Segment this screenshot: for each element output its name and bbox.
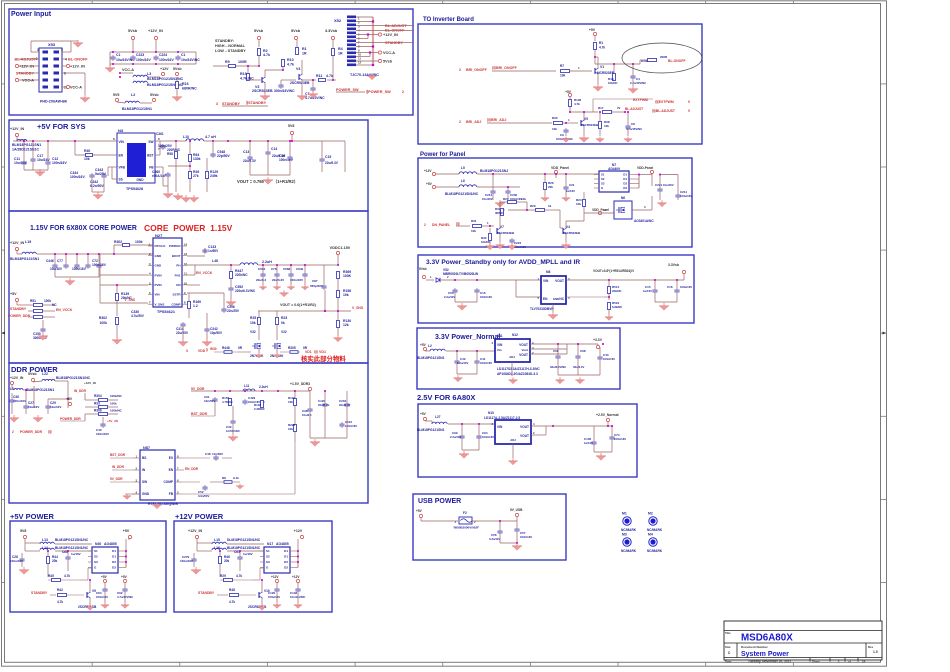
svg-text:4.7k: 4.7k xyxy=(287,63,294,67)
svg-text:2.2uH: 2.2uH xyxy=(262,260,272,264)
svg-text:N3: N3 xyxy=(118,128,124,133)
svg-text:Document Number: Document Number xyxy=(741,645,769,649)
svg-text:ADJ: ADJ xyxy=(509,355,515,359)
svg-text:S1: S1 xyxy=(266,549,270,553)
svg-text:10u/16V: 10u/16V xyxy=(14,161,28,165)
svg-text:C68: C68 xyxy=(580,349,586,353)
svg-text:VOUT: VOUT xyxy=(520,434,529,438)
svg-text:+5V: +5V xyxy=(420,412,427,416)
svg-text:VOUT: VOUT xyxy=(519,353,528,357)
svg-text:1: 1 xyxy=(37,48,39,52)
svg-text:27k: 27k xyxy=(193,174,199,178)
svg-text:100n/16V: 100n/16V xyxy=(520,535,532,539)
svg-text:D1: D1 xyxy=(623,173,627,177)
svg-text:2: 2 xyxy=(459,120,461,124)
svg-text:Tuesday, November 20, 2012: Tuesday, November 20, 2012 xyxy=(748,660,791,664)
svg-text:R1: R1 xyxy=(599,41,603,45)
svg-text:V_SNS: V_SNS xyxy=(155,302,165,306)
svg-text:C668: C668 xyxy=(283,267,291,271)
svg-text:10u/16V: 10u/16V xyxy=(50,267,63,271)
svg-text:10u/16V/NC: 10u/16V/NC xyxy=(181,58,200,62)
svg-text:COMP: COMP xyxy=(163,480,173,484)
svg-text:D2: D2 xyxy=(284,566,288,570)
svg-text:3.3V Power_Standby only for AV: 3.3V Power_Standby only for AVDD_MPLL an… xyxy=(426,259,580,266)
svg-text:10k: 10k xyxy=(250,321,256,325)
svg-text:100n/16V: 100n/16V xyxy=(603,357,615,361)
svg-text:Power for Panel: Power for Panel xyxy=(420,152,466,158)
svg-text:22p/50V: 22p/50V xyxy=(217,154,231,158)
svg-text:9: 9 xyxy=(688,100,690,104)
svg-text:VIN: VIN xyxy=(497,343,503,347)
svg-text:20k: 20k xyxy=(52,559,58,563)
svg-text:4.7u/10V/NC: 4.7u/10V/NC xyxy=(305,96,325,100)
svg-text:L5: L5 xyxy=(461,166,465,170)
svg-text:VCC-A: VCC-A xyxy=(122,68,134,72)
svg-text:+5V: +5V xyxy=(123,529,130,533)
svg-text:1.0: 1.0 xyxy=(873,650,878,654)
svg-text:ADJ: ADJ xyxy=(510,438,516,442)
svg-text:POWER_DDR: POWER_DDR xyxy=(8,314,31,318)
svg-text:L6: L6 xyxy=(461,179,465,183)
svg-text:100k: 100k xyxy=(135,240,143,244)
svg-text:PWRGD: PWRGD xyxy=(169,244,181,248)
svg-text:FB: FB xyxy=(169,492,174,496)
svg-text:S3: S3 xyxy=(94,560,98,564)
svg-text:4.7k: 4.7k xyxy=(229,600,235,604)
svg-text:⟫STANDBY: ⟫STANDBY xyxy=(246,100,267,105)
svg-text:100K: 100K xyxy=(343,274,352,278)
svg-text:M2: M2 xyxy=(648,512,653,516)
svg-text:EN: EN xyxy=(176,283,180,287)
svg-text:AO3401A/NC: AO3401A/NC xyxy=(634,219,654,223)
svg-text:BLM18PG121SN1: BLM18PG121SN1 xyxy=(10,257,39,261)
svg-text:2SCR523EB: 2SCR523EB xyxy=(252,89,273,93)
svg-text:D2: D2 xyxy=(623,182,627,186)
svg-text:0R/NC: 0R/NC xyxy=(495,211,503,215)
svg-text:+5V: +5V xyxy=(589,28,596,32)
svg-text:BRI_ADJ: BRI_ADJ xyxy=(466,120,481,124)
svg-text:+5V: +5V xyxy=(420,343,427,347)
svg-text:L2: L2 xyxy=(428,344,432,348)
svg-text:V32: V32 xyxy=(250,330,256,334)
svg-text:S3: S3 xyxy=(601,182,605,186)
svg-text:C77: C77 xyxy=(57,259,63,263)
svg-text:10u/6.3: 10u/6.3 xyxy=(302,413,312,417)
svg-text:VIN: VIN xyxy=(155,293,160,297)
svg-text:F2: F2 xyxy=(463,511,467,515)
svg-text:5Vsb: 5Vsb xyxy=(291,29,301,33)
svg-text:V5: V5 xyxy=(584,117,588,121)
svg-text:5Vsb: 5Vsb xyxy=(28,372,37,376)
svg-text:100n/16V: 100n/16V xyxy=(290,278,303,282)
svg-text:GND: GND xyxy=(553,297,559,301)
svg-text:22u/25V: 22u/25V xyxy=(176,331,189,335)
svg-text:1.15V FOR 6X80X CORE POWER: 1.15V FOR 6X80X CORE POWER xyxy=(30,225,137,232)
svg-text:STANDBY: STANDBY xyxy=(16,72,35,76)
svg-text:TPS54628: TPS54628 xyxy=(126,187,143,191)
svg-text:+12V_IN: +12V_IN xyxy=(10,376,24,380)
svg-text:4.7k: 4.7k xyxy=(263,53,270,57)
svg-text:100n/16V: 100n/16V xyxy=(92,263,107,267)
svg-text:VIN: VIN xyxy=(119,140,125,144)
svg-text:C: C xyxy=(728,651,731,655)
svg-text:SS: SS xyxy=(119,178,123,182)
svg-text:VOUT: VOUT xyxy=(555,279,564,283)
svg-text:R51: R51 xyxy=(30,299,36,303)
svg-text:10k: 10k xyxy=(288,427,293,431)
svg-text:EN: EN xyxy=(169,468,174,472)
svg-text:100k: 100k xyxy=(99,321,107,325)
svg-text:VDD-Panel: VDD-Panel xyxy=(637,166,653,170)
svg-text:N8: N8 xyxy=(546,270,550,274)
svg-text:EN: EN xyxy=(543,297,548,301)
svg-text:S2: S2 xyxy=(94,555,98,559)
svg-text:3.3u/10V: 3.3u/10V xyxy=(489,537,500,541)
svg-text:VIN: VIN xyxy=(543,279,549,283)
svg-text:R9: R9 xyxy=(225,60,230,64)
svg-text:SW: SW xyxy=(148,140,153,144)
svg-text:X53: X53 xyxy=(48,42,56,47)
svg-text:M4: M4 xyxy=(648,533,653,537)
svg-text:N30: N30 xyxy=(95,542,101,546)
svg-text:DLM18PG121SN1/NC: DLM18PG121SN1/NC xyxy=(227,538,261,542)
svg-text:V4: V4 xyxy=(296,67,300,71)
svg-text:VD1: VD1 xyxy=(305,350,312,354)
svg-text:10u/16V: 10u/16V xyxy=(50,405,61,409)
svg-text:BL-ONOFF: BL-ONOFF xyxy=(668,59,686,63)
svg-text:100k: 100k xyxy=(44,299,51,303)
svg-text:VCC-A: VCC-A xyxy=(383,51,395,55)
svg-text:MCR523EB: MCR523EB xyxy=(597,71,615,75)
svg-text:200R: 200R xyxy=(660,55,668,59)
svg-text:IN_DDR: IN_DDR xyxy=(74,389,87,393)
svg-text:BL-ADJUST: BL-ADJUST xyxy=(385,24,407,28)
svg-text:100u/16V: 100u/16V xyxy=(268,595,280,599)
svg-text:C221: C221 xyxy=(655,183,663,187)
svg-text:BLM18PG121SN1: BLM18PG121SN1 xyxy=(122,107,152,111)
svg-text:LD1117S3.3A/Z1117H-3.3/NC: LD1117S3.3A/Z1117H-3.3/NC xyxy=(497,367,540,371)
svg-text:2: 2 xyxy=(12,430,14,434)
svg-text:VDD: VDD xyxy=(198,349,206,353)
svg-text:C223: C223 xyxy=(136,53,144,57)
svg-text:+12V: +12V xyxy=(271,575,279,579)
svg-text:V4: V4 xyxy=(566,225,570,229)
svg-text:R4: R4 xyxy=(338,47,343,51)
svg-text:5Vsb: 5Vsb xyxy=(173,67,182,71)
svg-text:100n/16V: 100n/16V xyxy=(482,435,494,439)
svg-text:1R: 1R xyxy=(338,52,343,56)
svg-text:+5V: +5V xyxy=(66,397,73,401)
svg-text:33u/6.3V: 33u/6.3V xyxy=(573,365,584,369)
svg-text:5V5: 5V5 xyxy=(113,93,119,97)
svg-text:N6: N6 xyxy=(621,196,625,200)
svg-text:10k: 10k xyxy=(576,202,581,206)
svg-text:2: 2 xyxy=(424,223,426,227)
svg-text:TO Inverter Board: TO Inverter Board xyxy=(423,17,474,23)
svg-text:100n/16V: 100n/16V xyxy=(52,161,67,165)
svg-text:Vin: Vin xyxy=(497,348,502,352)
svg-text:22u/6.3V: 22u/6.3V xyxy=(325,161,339,165)
svg-text:100n/16V: 100n/16V xyxy=(480,295,492,299)
svg-text:100u/16V: 100u/16V xyxy=(10,559,23,563)
svg-text:VIN: VIN xyxy=(497,425,503,429)
svg-text:R31: R31 xyxy=(471,219,477,223)
svg-text:100n/16V: 100n/16V xyxy=(96,432,109,436)
svg-text:20k: 20k xyxy=(224,559,230,563)
svg-text:2.2u/10V/NC: 2.2u/10V/NC xyxy=(630,81,646,85)
svg-text:+5V: +5V xyxy=(416,509,423,513)
svg-text:1u/16V: 1u/16V xyxy=(566,189,575,193)
svg-text:R306: R306 xyxy=(641,59,649,63)
svg-text:1u/10V: 1u/10V xyxy=(584,441,593,445)
svg-text:1.2: 1.2 xyxy=(193,304,198,308)
svg-text:C16: C16 xyxy=(667,285,673,289)
svg-text:100u/16V: 100u/16V xyxy=(72,267,87,271)
svg-text:L27: L27 xyxy=(435,415,441,419)
svg-text:5Vsb: 5Vsb xyxy=(254,29,264,33)
svg-text:+12V: +12V xyxy=(424,169,432,173)
svg-text:+5V: +5V xyxy=(121,575,128,579)
svg-text:VOUT = 0.6(1+R1/R2): VOUT = 0.6(1+R1/R2) xyxy=(280,303,317,307)
svg-text:VOUT=0.8*(1+R514/R524)/V: VOUT=0.8*(1+R514/R524)/V xyxy=(593,269,635,273)
svg-text:BS: BS xyxy=(142,456,146,460)
svg-text:S1: S1 xyxy=(601,173,605,177)
svg-text:S2: S2 xyxy=(266,555,270,559)
svg-text:VCC-A: VCC-A xyxy=(70,86,82,90)
svg-text:10k/NC: 10k/NC xyxy=(608,81,617,85)
svg-text:100n/16V: 100n/16V xyxy=(159,58,174,62)
svg-text:NC/MARK: NC/MARK xyxy=(647,528,663,532)
svg-text:⟫: ⟫ xyxy=(206,348,208,352)
svg-text:100n/16V: 100n/16V xyxy=(13,399,26,403)
svg-text:⟫⟫: ⟫⟫ xyxy=(48,430,52,434)
svg-text:2.2u/10V: 2.2u/10V xyxy=(457,361,468,365)
svg-text:C8: C8 xyxy=(631,122,635,126)
svg-text:R304: R304 xyxy=(94,394,102,398)
svg-text:R10: R10 xyxy=(287,58,294,62)
svg-text:±50A/1nF: ±50A/1nF xyxy=(152,174,166,178)
svg-text:VCC-A: VCC-A xyxy=(22,79,34,83)
svg-text:10n/50V: 10n/50V xyxy=(204,399,215,403)
svg-text:R40: R40 xyxy=(84,149,90,153)
svg-text:⟪⟪EXTPWM: ⟪⟪EXTPWM xyxy=(655,100,674,104)
svg-text:3.3Vsb: 3.3Vsb xyxy=(668,263,679,267)
svg-text:100n/16V: 100n/16V xyxy=(136,58,151,62)
svg-text:L10: L10 xyxy=(183,135,189,139)
svg-text:NC/MARK: NC/MARK xyxy=(621,549,637,553)
svg-text:10k: 10k xyxy=(521,197,526,201)
svg-text:+12V_IN: +12V_IN xyxy=(383,33,398,37)
svg-text:GND: GND xyxy=(142,492,150,496)
svg-text:System Power: System Power xyxy=(741,651,789,658)
svg-text:+12V_IN: +12V_IN xyxy=(70,65,85,69)
svg-text:N27: N27 xyxy=(155,233,163,238)
svg-text:100R: 100R xyxy=(238,60,247,64)
svg-text:10k: 10k xyxy=(471,229,476,233)
svg-text:L2: L2 xyxy=(131,93,135,97)
svg-text:IN_DDR: IN_DDR xyxy=(112,465,125,469)
svg-text:BLM18PG121SN1/NC: BLM18PG121SN1/NC xyxy=(147,77,184,81)
svg-text:4.7 uH: 4.7 uH xyxy=(205,135,216,139)
svg-text:4: 4 xyxy=(65,58,67,62)
svg-text:核实此部分物料: 核实此部分物料 xyxy=(301,354,346,363)
svg-text:NC/MARK: NC/MARK xyxy=(621,528,637,532)
svg-text:CORE POWER 1.15V: CORE POWER 1.15V xyxy=(144,223,233,233)
svg-text:BLM18PG121SN1: BLM18PG121SN1 xyxy=(417,356,445,360)
svg-text:⟪POWER_SW: ⟪POWER_SW xyxy=(366,89,391,94)
svg-text:L14: L14 xyxy=(42,546,48,550)
svg-text:5V_USB: 5V_USB xyxy=(510,508,523,512)
svg-text:EN: EN xyxy=(119,154,124,158)
svg-text:22n/25V: 22n/25V xyxy=(227,309,240,313)
svg-text:STANDBY: STANDBY xyxy=(222,102,241,106)
svg-text:+12V_IN: +12V_IN xyxy=(10,127,24,131)
svg-text:R302: R302 xyxy=(99,316,107,320)
svg-text:D1: D1 xyxy=(284,549,288,553)
svg-text:R30: R30 xyxy=(552,116,558,120)
svg-text:22u/6.3V: 22u/6.3V xyxy=(339,403,350,407)
svg-text:1R: 1R xyxy=(302,52,307,56)
svg-text:+12V_IN: +12V_IN xyxy=(10,241,24,245)
svg-text:N17: N17 xyxy=(267,542,273,546)
svg-text:R13: R13 xyxy=(240,72,247,76)
svg-text:2.5V FOR 6A80X: 2.5V FOR 6A80X xyxy=(417,393,475,402)
svg-text:D1: D1 xyxy=(623,177,627,181)
svg-text:Sheet: Sheet xyxy=(812,660,820,664)
svg-text:22k/NC: 22k/NC xyxy=(612,289,621,293)
svg-text:100u/16V: 100u/16V xyxy=(680,285,692,289)
svg-text:L16: L16 xyxy=(214,546,220,550)
svg-text:2: 2 xyxy=(459,68,461,72)
svg-text:100k: 100k xyxy=(110,402,117,406)
svg-text:DN_PANEL: DN_PANEL xyxy=(432,223,450,227)
svg-text:+12V: +12V xyxy=(292,575,300,579)
svg-text:2.2u/10V: 2.2u/10V xyxy=(450,435,461,439)
svg-text:22u/6.3V: 22u/6.3V xyxy=(272,278,284,282)
svg-text:0R: 0R xyxy=(238,346,243,350)
svg-text:LOW→STANDBY: LOW→STANDBY xyxy=(215,49,246,53)
svg-text:LD1117A-2.5A/Z1117-2.5: LD1117A-2.5A/Z1117-2.5 xyxy=(484,416,520,420)
svg-text:D1: D1 xyxy=(112,555,116,559)
svg-text:PHD-2X6AW-BK: PHD-2X6AW-BK xyxy=(40,100,68,104)
svg-text:1n/50V: 1n/50V xyxy=(208,249,219,253)
svg-text:BLM18PG121SN1/NC: BLM18PG121SN1/NC xyxy=(56,376,91,380)
svg-text:2.2u/10V: 2.2u/10V xyxy=(444,295,455,299)
svg-text:4.7k: 4.7k xyxy=(64,574,70,578)
svg-text:10k: 10k xyxy=(552,127,557,131)
svg-text:N11: N11 xyxy=(497,334,503,338)
svg-text:5V8: 5V8 xyxy=(288,124,294,128)
svg-text:BST: BST xyxy=(147,154,153,158)
svg-text:BRI_ONOFF: BRI_ONOFF xyxy=(466,68,488,72)
svg-text:NC: NC xyxy=(52,303,57,307)
svg-text:12k: 12k xyxy=(343,323,349,327)
svg-text:Size: Size xyxy=(725,645,731,649)
svg-text:R23: R23 xyxy=(281,316,287,320)
svg-text:7k: 7k xyxy=(617,106,621,110)
svg-text:FB: FB xyxy=(149,166,154,170)
svg-text:C21: C21 xyxy=(569,183,575,187)
svg-text:R45: R45 xyxy=(48,574,54,578)
svg-text:10p/50V: 10p/50V xyxy=(210,331,223,335)
svg-text:STANDBY: STANDBY xyxy=(10,307,27,311)
svg-text:N10: N10 xyxy=(488,411,494,415)
svg-text:NC/MARK: NC/MARK xyxy=(647,549,663,553)
svg-text:R8: R8 xyxy=(222,476,226,480)
svg-text:4.7k: 4.7k xyxy=(57,600,63,604)
svg-text:L48: L48 xyxy=(212,259,218,263)
svg-text:S2: S2 xyxy=(601,177,605,181)
svg-text:249k: 249k xyxy=(210,174,218,178)
svg-text:C14: C14 xyxy=(271,147,277,151)
svg-text:2: 2 xyxy=(61,48,63,52)
svg-text:R302: R302 xyxy=(114,240,122,244)
svg-text:AO4805: AO4805 xyxy=(276,542,289,546)
svg-text:VDDC1.15V: VDDC1.15V xyxy=(330,246,351,250)
svg-text:PVIN: PVIN xyxy=(155,283,162,287)
svg-text:C1: C1 xyxy=(116,53,120,57)
svg-text:GND: GND xyxy=(136,178,144,182)
svg-text:220k/NC: 220k/NC xyxy=(235,273,248,277)
svg-text:SSTR: SSTR xyxy=(172,293,181,297)
svg-text:10k: 10k xyxy=(288,400,293,404)
svg-text:⟫⟫: ⟫⟫ xyxy=(456,222,460,226)
svg-text:VDD_Panel: VDD_Panel xyxy=(551,166,569,170)
svg-text:4.7k: 4.7k xyxy=(599,46,605,50)
svg-text:2: 2 xyxy=(402,90,404,94)
svg-text:C649: C649 xyxy=(296,267,304,271)
svg-text:RT/CLK: RT/CLK xyxy=(155,244,167,248)
svg-text:X52: X52 xyxy=(334,18,342,23)
svg-text:5Vsb: 5Vsb xyxy=(128,29,138,33)
svg-text:5u/25V: 5u/25V xyxy=(95,172,107,176)
svg-text:⟫⟫BRI_ONOFF: ⟫⟫BRI_ONOFF xyxy=(492,65,518,70)
svg-text:L11: L11 xyxy=(244,384,250,388)
svg-text:POWER_SW: POWER_SW xyxy=(336,88,359,92)
svg-text:BLM18PG121SN1/NC: BLM18PG121SN1/NC xyxy=(227,546,261,550)
svg-text:5V_DDR: 5V_DDR xyxy=(110,477,123,481)
svg-text:PH1: PH1 xyxy=(175,273,181,277)
svg-text:COMP: COMP xyxy=(172,302,181,306)
svg-text:5V8: 5V8 xyxy=(20,529,26,533)
svg-text:+5V POWER: +5V POWER xyxy=(10,512,55,521)
svg-text:VOUT: VOUT xyxy=(519,343,528,347)
svg-text:R29: R29 xyxy=(530,204,536,208)
svg-text:STANDBY: STANDBY xyxy=(198,591,215,595)
svg-text:BST_DDR: BST_DDR xyxy=(110,453,126,457)
svg-text:+1.5V_DDR3: +1.5V_DDR3 xyxy=(290,382,310,386)
svg-text:V1: V1 xyxy=(600,65,604,69)
svg-text:100u/16V: 100u/16V xyxy=(180,559,193,563)
svg-text:BL-ADJUST: BL-ADJUST xyxy=(14,58,36,62)
svg-text:3.9n/50V: 3.9n/50V xyxy=(198,494,209,498)
svg-text:+12V: +12V xyxy=(160,67,169,71)
svg-text:Vout: Vout xyxy=(522,348,528,352)
svg-text:GND: GND xyxy=(155,264,163,268)
svg-text:W30: W30 xyxy=(210,347,217,351)
svg-text:+3.3V: +3.3V xyxy=(593,338,603,342)
svg-text:22u/6.3V: 22u/6.3V xyxy=(318,403,329,407)
svg-text:BLM18PG121SNJ: BLM18PG121SNJ xyxy=(480,169,508,173)
svg-text:19: 19 xyxy=(862,660,866,664)
svg-text:2.2uH: 2.2uH xyxy=(259,385,268,389)
svg-text:SW: SW xyxy=(142,480,147,484)
svg-text:TPS54621: TPS54621 xyxy=(157,310,175,314)
svg-text:D1: D1 xyxy=(112,549,116,553)
svg-text:of: of xyxy=(848,660,851,664)
svg-text:+5V: +5V xyxy=(10,292,17,296)
svg-text:PVIN: PVIN xyxy=(155,273,162,277)
